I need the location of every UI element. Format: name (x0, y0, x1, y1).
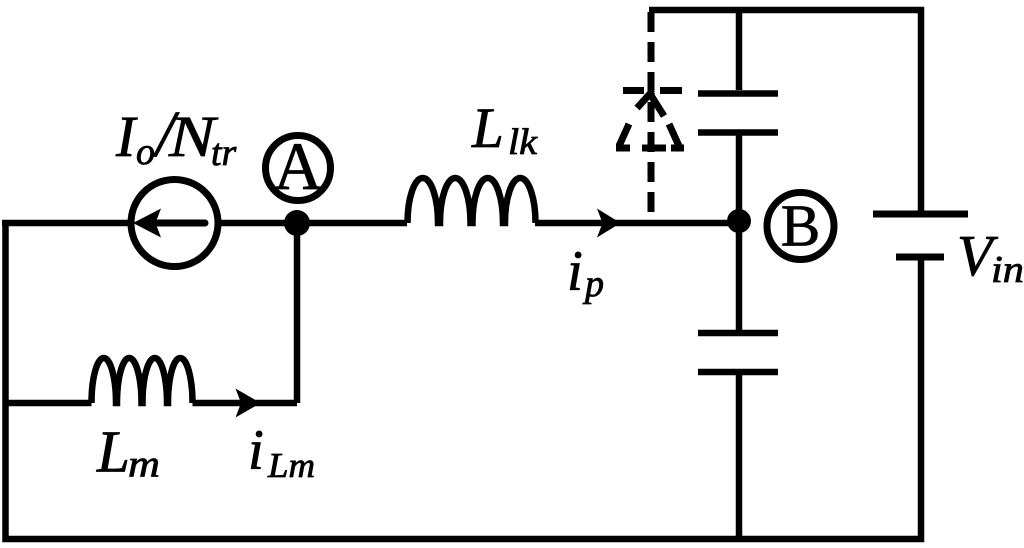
svg-text:i: i (248, 419, 264, 482)
svg-text:A: A (273, 128, 322, 204)
svg-text:Lm: Lm (267, 446, 315, 485)
svg-text:o: o (136, 131, 155, 173)
svg-text:L: L (471, 97, 504, 160)
svg-text:i: i (567, 240, 583, 303)
svg-text:L: L (96, 419, 130, 485)
svg-text:p: p (582, 263, 604, 305)
svg-text:B: B (781, 193, 820, 259)
svg-text:I: I (115, 104, 138, 169)
svg-text:lk: lk (508, 122, 538, 163)
svg-text:tr: tr (211, 132, 237, 174)
svg-text:in: in (991, 249, 1024, 291)
svg-text:m: m (128, 444, 160, 486)
